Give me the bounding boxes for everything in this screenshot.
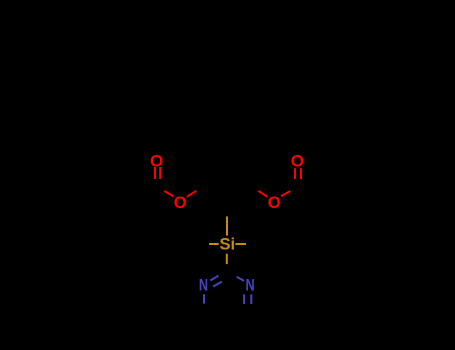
svg-text:O: O [150,151,163,170]
svg-text:O: O [174,194,187,212]
bond Si - CH3 left, gold half [209,243,219,245]
svg-text:N: N [246,277,255,295]
bond ester O - CH2 (left acetate), red half [187,191,196,197]
bond acyl C - ester O (left acetate), red half [164,191,173,196]
bond ester O - CH2 (right acetate), red half [258,191,267,197]
bond acyl C - ester O (right acetate), red half [281,191,290,196]
svg-text:O: O [268,194,281,212]
svg-text:N: N [199,277,208,295]
bond C2=N1 double bond inner line, blue half [213,282,222,287]
bond N3=C4 double bond inner line, blue half [243,294,245,304]
bond Si - CH3 right, gold half [235,243,246,245]
bond C2 - N3 single bond, blue half [237,277,244,281]
bond C=O double bond (right acetate), red half [295,168,301,179]
bond C2=N1 double bond outer line, blue half [210,276,218,281]
bond Si - C2 lower, gold half [226,254,228,264]
svg-text:O: O [291,151,304,170]
bond C - Si upper, gold half [226,216,228,235]
svg-text:Si: Si [220,236,236,254]
bond N1 - C6, blue half [203,294,205,303]
bond C=O double bond (left acetate), red half [155,167,160,179]
carbon skeleton (black, invisible on black background) [135,39,319,325]
bond N3=C4 double bond outer line, blue half [250,294,252,304]
